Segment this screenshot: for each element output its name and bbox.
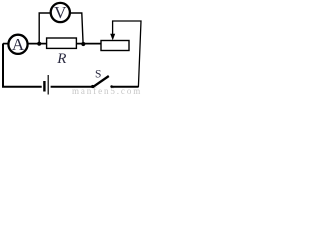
svg-text:R: R xyxy=(56,51,66,67)
svg-text:V: V xyxy=(54,3,67,22)
svg-text:S: S xyxy=(95,69,101,81)
svg-text:A: A xyxy=(12,35,25,54)
